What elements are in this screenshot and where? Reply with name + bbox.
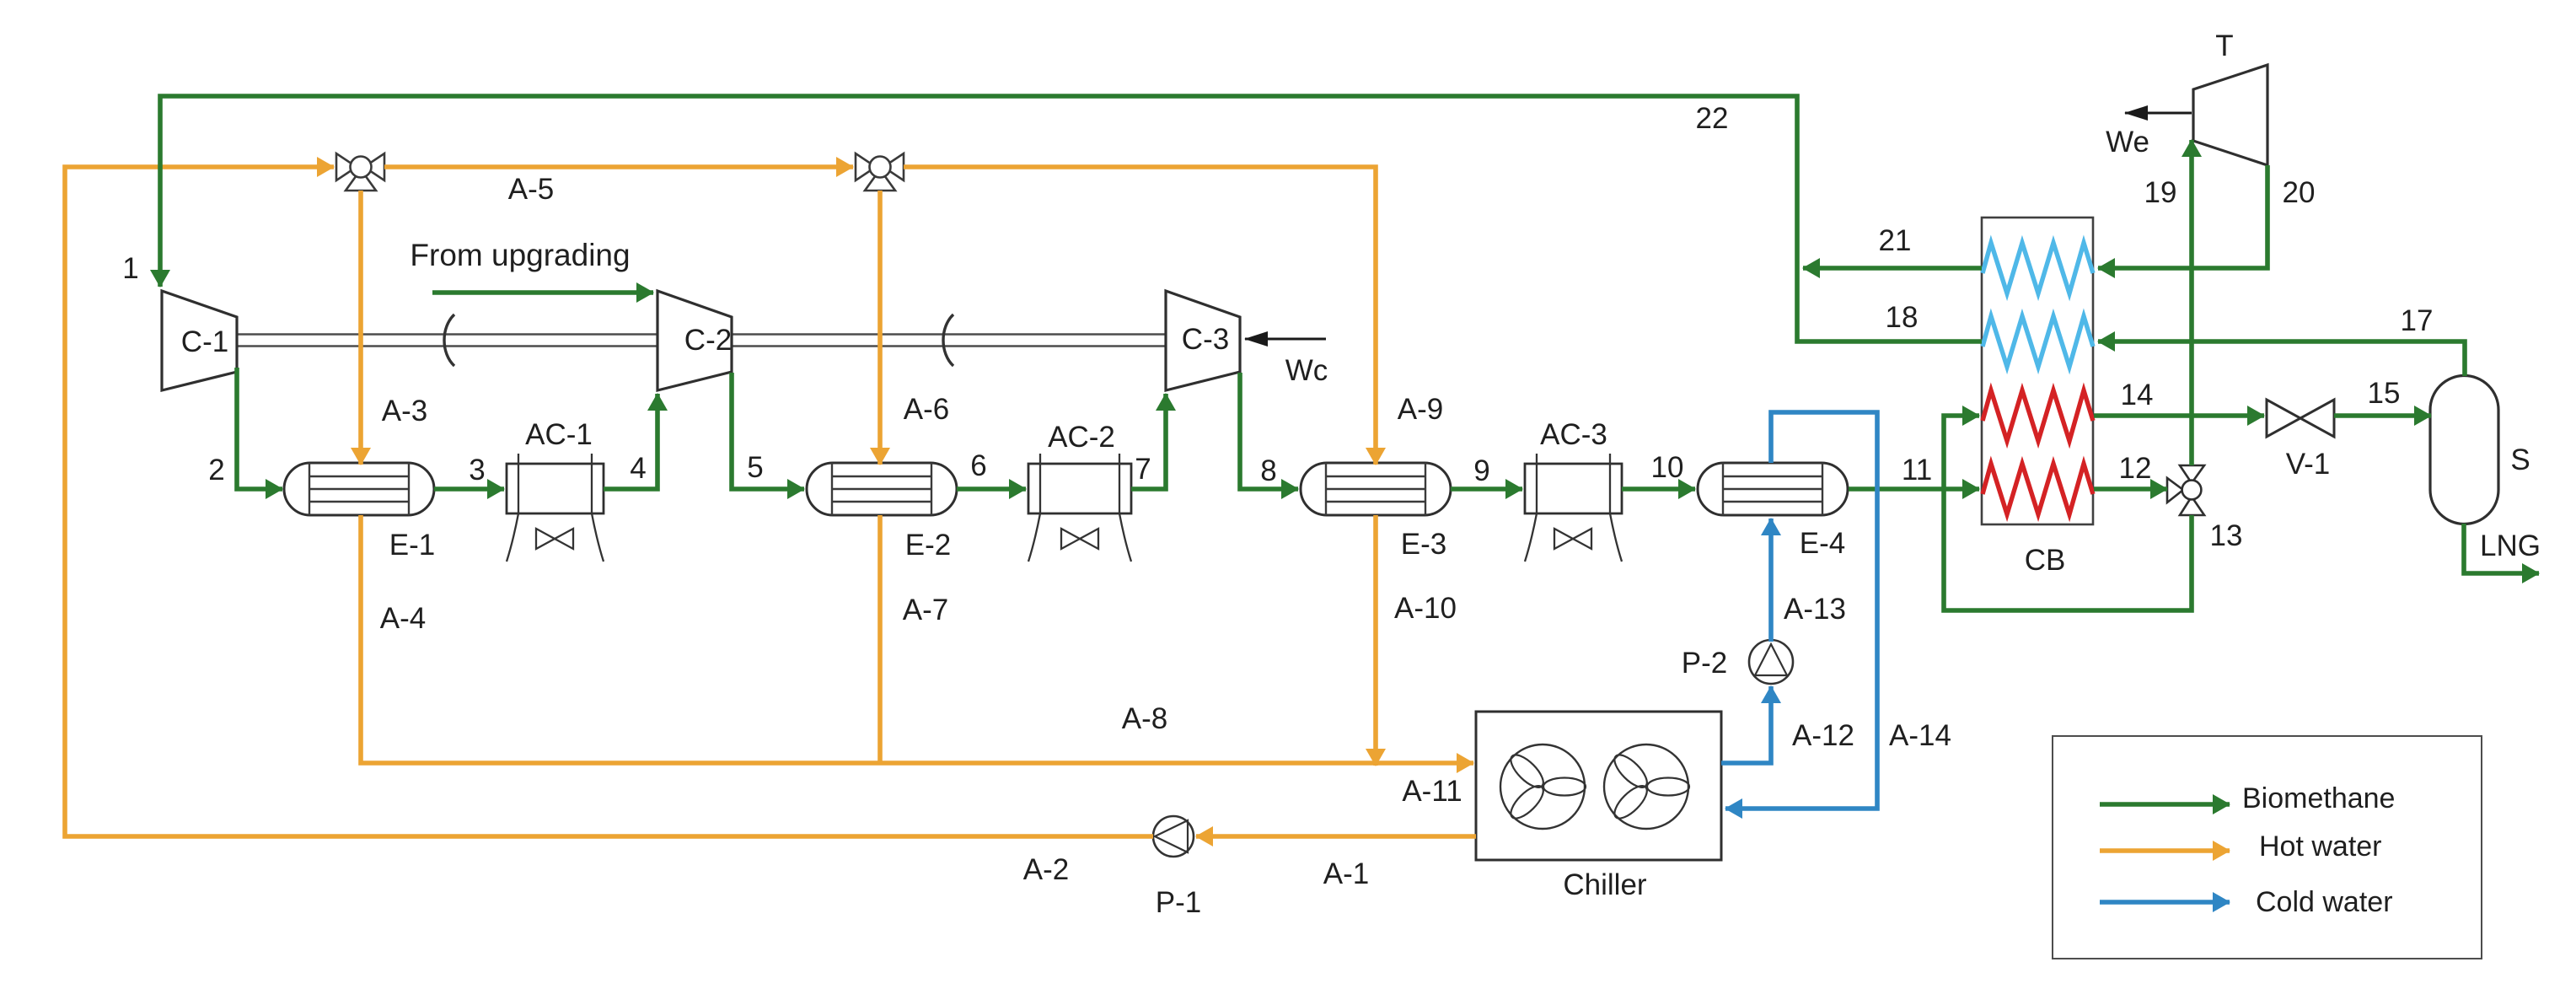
svg-text:A-11: A-11 [1402, 775, 1462, 808]
svg-text:14: 14 [2121, 379, 2154, 411]
svg-text:C-2: C-2 [684, 324, 732, 357]
svg-text:1: 1 [122, 252, 138, 285]
svg-text:21: 21 [1879, 224, 1912, 257]
svg-text:6: 6 [970, 449, 986, 482]
svg-text:18: 18 [1886, 301, 1919, 334]
svg-text:19: 19 [2144, 176, 2177, 209]
svg-text:A-4: A-4 [380, 602, 426, 635]
svg-text:A-2: A-2 [1023, 853, 1069, 886]
svg-text:13: 13 [2210, 519, 2243, 552]
svg-text:A-10: A-10 [1394, 592, 1457, 625]
svg-text:We: We [2106, 126, 2149, 159]
svg-text:A-6: A-6 [904, 393, 949, 426]
svg-text:V-1: V-1 [2286, 448, 2331, 481]
svg-text:Chiller: Chiller [1563, 868, 1647, 901]
svg-text:P-2: P-2 [1682, 647, 1727, 680]
svg-text:17: 17 [2401, 304, 2434, 337]
svg-text:3: 3 [469, 454, 485, 486]
svg-text:From upgrading: From upgrading [410, 238, 630, 272]
svg-text:Hot water: Hot water [2259, 830, 2382, 863]
svg-text:20: 20 [2283, 176, 2316, 209]
svg-text:S: S [2510, 443, 2530, 476]
svg-text:CB: CB [2025, 544, 2066, 577]
svg-text:15: 15 [2368, 377, 2401, 410]
svg-text:AC-1: AC-1 [525, 418, 593, 451]
svg-text:A-12: A-12 [1792, 719, 1854, 752]
svg-text:AC-2: AC-2 [1048, 421, 1115, 454]
svg-text:7: 7 [1135, 453, 1151, 486]
svg-text:2: 2 [208, 454, 224, 486]
svg-text:A-7: A-7 [903, 594, 948, 626]
svg-text:Biomethane: Biomethane [2242, 782, 2395, 814]
svg-text:A-3: A-3 [382, 395, 427, 427]
svg-text:E-4: E-4 [1800, 527, 1845, 560]
svg-text:9: 9 [1473, 454, 1489, 487]
svg-text:C-3: C-3 [1182, 323, 1229, 356]
svg-text:22: 22 [1696, 102, 1729, 135]
svg-text:A-1: A-1 [1323, 857, 1369, 890]
svg-text:A-8: A-8 [1122, 702, 1167, 735]
svg-text:E-2: E-2 [905, 529, 951, 562]
svg-text:A-14: A-14 [1889, 719, 1951, 752]
svg-text:E-3: E-3 [1401, 528, 1446, 561]
svg-text:10: 10 [1651, 451, 1684, 484]
svg-text:LNG: LNG [2480, 529, 2541, 562]
svg-text:4: 4 [630, 452, 646, 485]
svg-text:P-1: P-1 [1156, 886, 1201, 919]
svg-text:8: 8 [1260, 454, 1276, 487]
svg-text:T: T [2215, 30, 2233, 62]
svg-text:C-1: C-1 [181, 325, 228, 358]
svg-text:11: 11 [1902, 454, 1932, 486]
svg-text:5: 5 [747, 451, 763, 484]
svg-text:A-9: A-9 [1398, 393, 1443, 426]
svg-text:AC-3: AC-3 [1540, 418, 1607, 451]
svg-text:A-5: A-5 [508, 173, 554, 206]
svg-text:A-13: A-13 [1784, 593, 1846, 626]
svg-text:Wc: Wc [1285, 354, 1328, 387]
svg-text:E-1: E-1 [389, 529, 435, 562]
svg-text:Cold water: Cold water [2256, 886, 2393, 918]
svg-text:12: 12 [2119, 452, 2152, 485]
